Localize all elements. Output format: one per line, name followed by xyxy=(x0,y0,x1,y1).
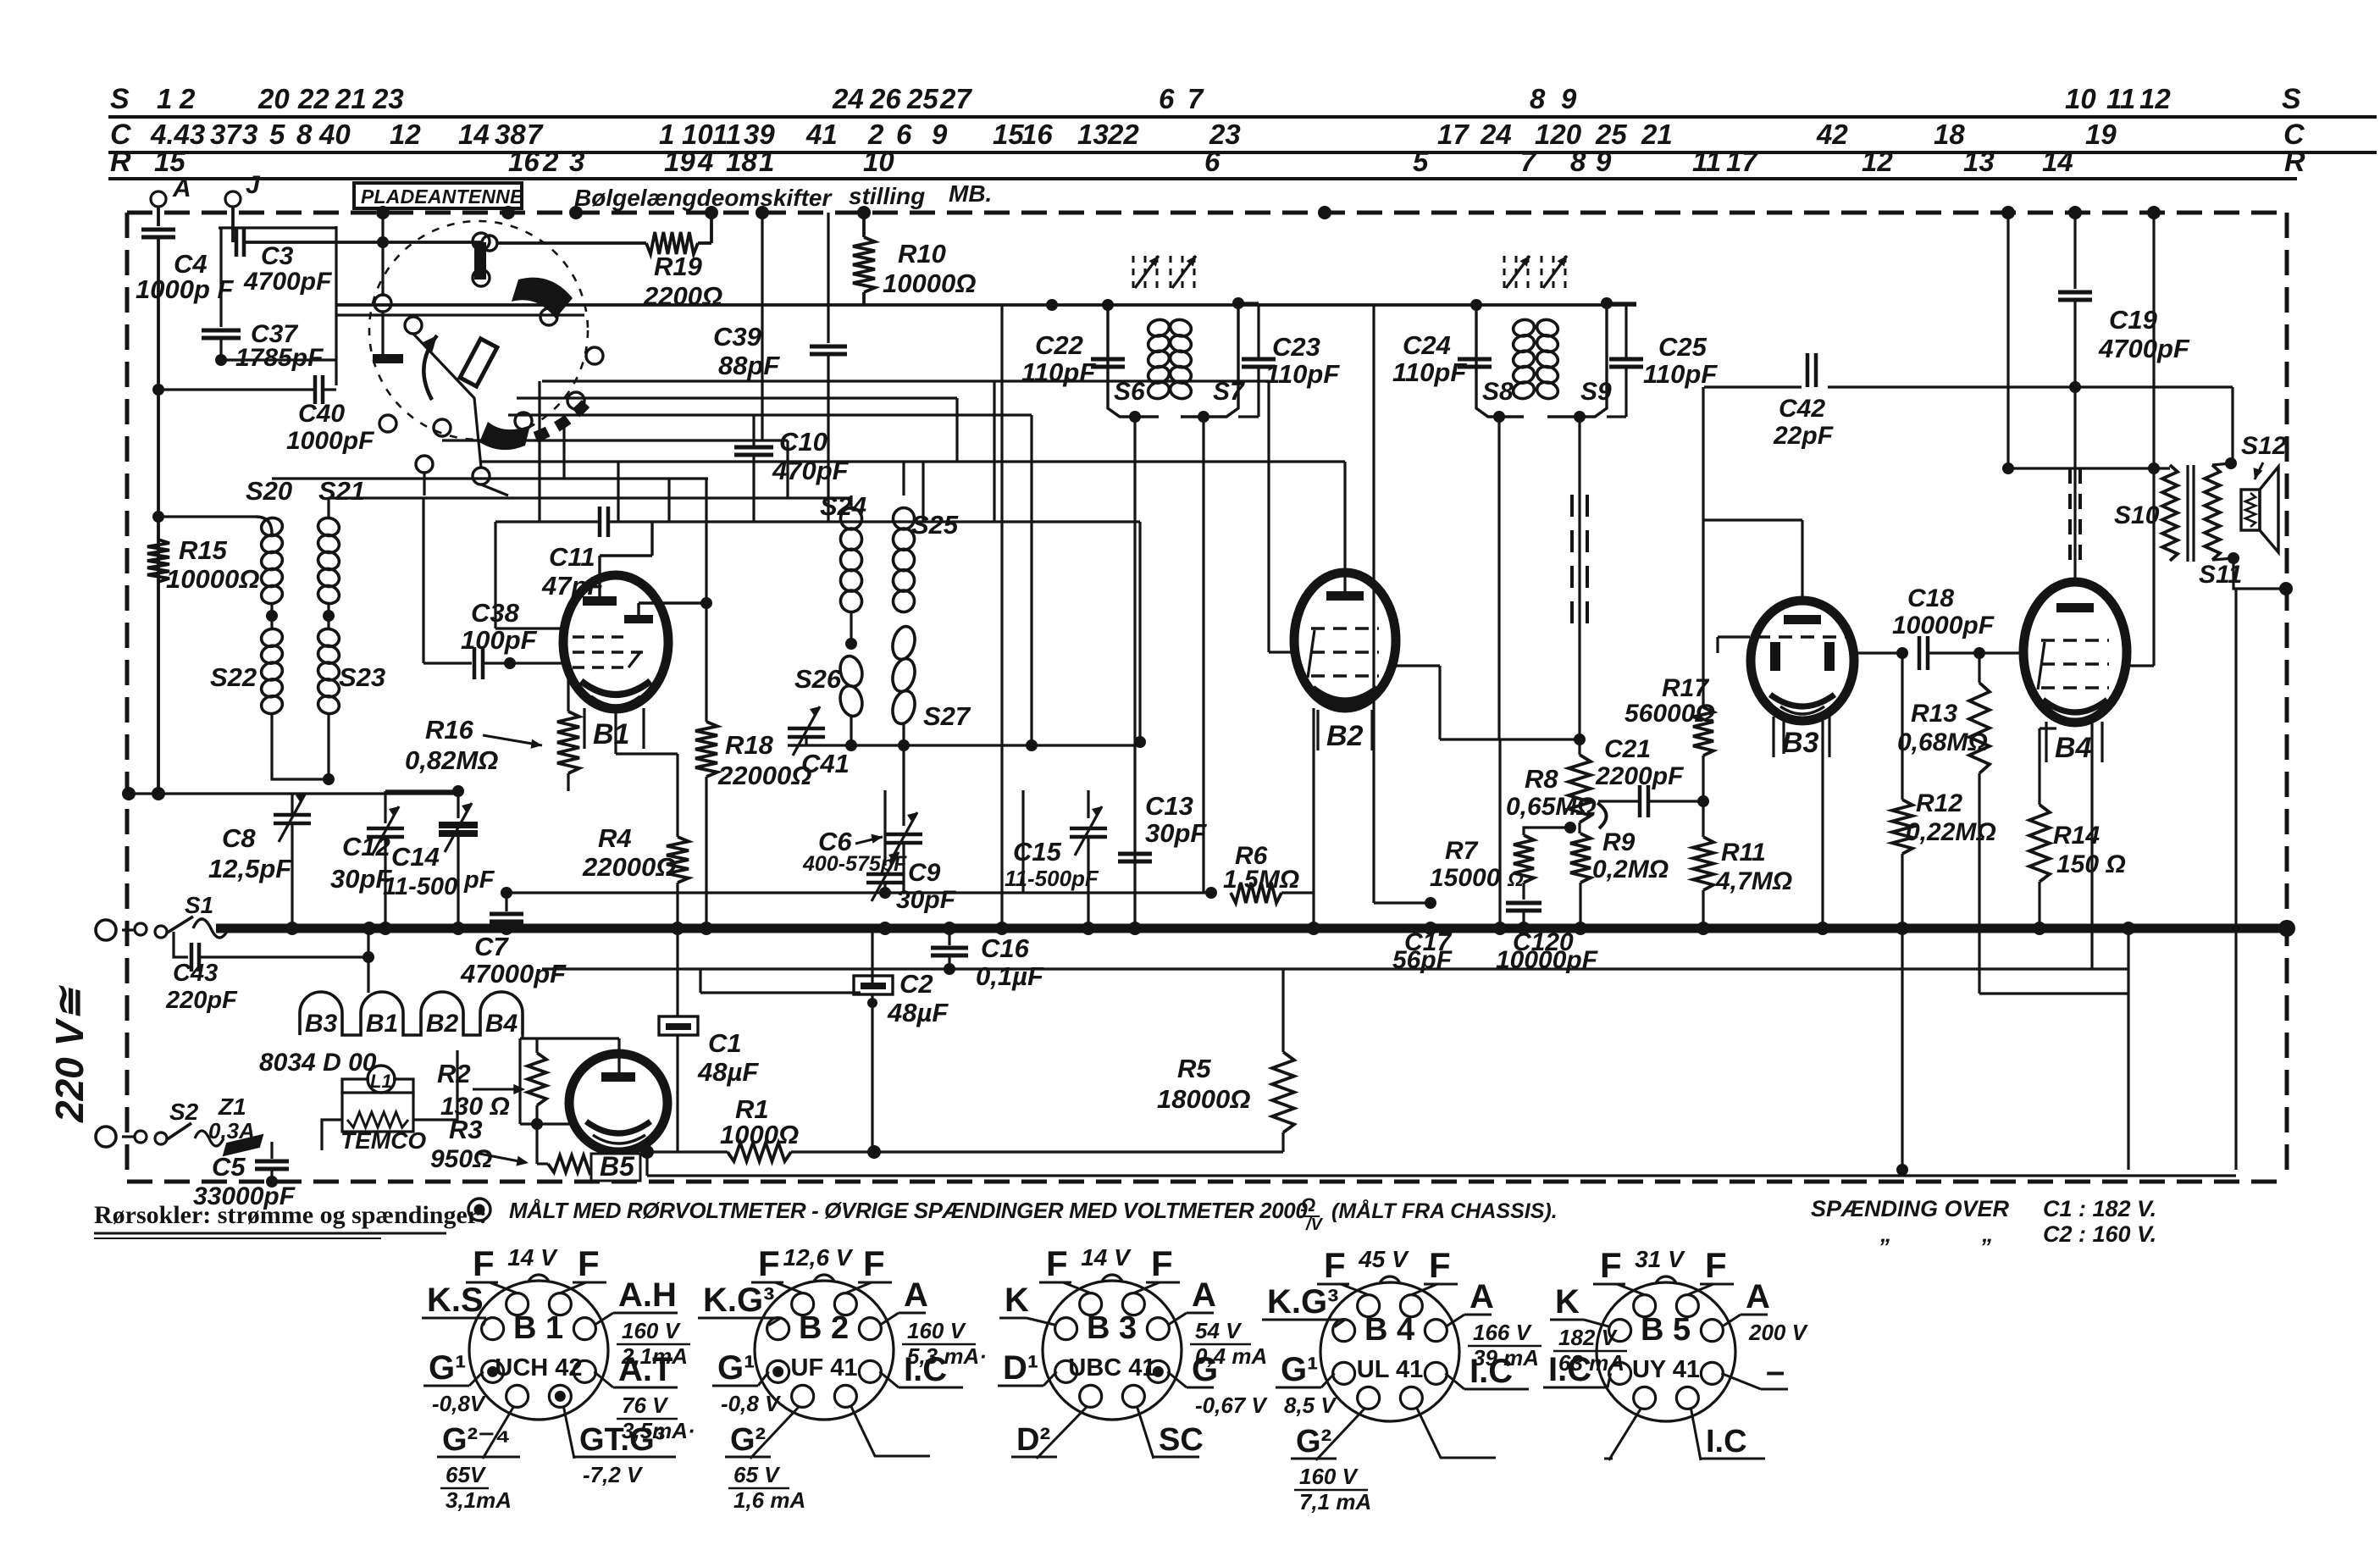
lamp leads xyxy=(342,1079,369,1094)
svg-text:56000Ω: 56000Ω xyxy=(1624,700,1715,728)
svg-text:0,1µF: 0,1µF xyxy=(976,961,1044,991)
label PLADEANTENNE box xyxy=(354,183,522,208)
resistor R14 150ohm xyxy=(2038,728,2040,805)
coil S25 xyxy=(891,506,916,532)
svg-text:0,68MΩ: 0,68MΩ xyxy=(1897,728,1988,756)
resistor R4 22000ohm xyxy=(614,710,617,754)
capacitor C40 xyxy=(313,375,318,404)
label B3 xyxy=(1772,717,1774,757)
svg-text:I.C: I.C xyxy=(1706,1424,1747,1459)
resistor R18 22000ohm xyxy=(705,479,707,722)
svg-text:18: 18 xyxy=(726,146,757,177)
svg-text:0,82MΩ: 0,82MΩ xyxy=(405,745,498,775)
svg-text:C22: C22 xyxy=(1035,330,1083,360)
svg-text:110pF: 110pF xyxy=(1021,357,1096,387)
svg-text:C19: C19 xyxy=(2109,305,2158,335)
svg-text:B2: B2 xyxy=(426,1010,459,1038)
tuning arrows IF1 xyxy=(1132,256,1135,288)
component index row C xyxy=(108,151,2377,154)
svg-text:110pF: 110pF xyxy=(1392,357,1467,387)
capacitor C19 4700pF xyxy=(2073,213,2076,289)
svg-text:0,65MΩ: 0,65MΩ xyxy=(1506,793,1597,821)
screened lead dashes S9 to detector xyxy=(1570,495,1574,628)
bus junction dots xyxy=(285,922,299,935)
svg-text:S: S xyxy=(110,83,130,115)
tube B1 leads xyxy=(495,627,564,629)
svg-text:C21: C21 xyxy=(1604,735,1651,763)
svg-text:7: 7 xyxy=(1520,146,1537,177)
svg-text:S21: S21 xyxy=(318,476,365,506)
svg-text:C39: C39 xyxy=(713,322,762,352)
svg-text:15000: 15000 xyxy=(1430,864,1501,892)
trimmer C9 30pF xyxy=(883,790,886,866)
svg-text:110pF: 110pF xyxy=(1643,359,1718,389)
wire B+ feed x2371 xyxy=(2006,213,2009,468)
svg-text:14 V: 14 V xyxy=(507,1244,558,1271)
svg-text:R15: R15 xyxy=(179,535,228,565)
tube B2 leads xyxy=(1269,651,1296,653)
svg-text:C18: C18 xyxy=(1907,584,1954,612)
svg-text:1785pF: 1785pF xyxy=(235,344,324,372)
svg-text:22000Ω: 22000Ω xyxy=(717,761,811,790)
svg-text:B4: B4 xyxy=(2055,732,2092,764)
svg-text:24: 24 xyxy=(1480,119,1512,150)
svg-text:K.G³: K.G³ xyxy=(1267,1283,1338,1321)
svg-text:R: R xyxy=(2284,146,2305,178)
svg-text:F: F xyxy=(1600,1245,1622,1285)
svg-text:C7: C7 xyxy=(474,932,509,961)
svg-text:A.T: A.T xyxy=(618,1351,672,1388)
svg-text:160 V: 160 V xyxy=(1299,1464,1359,1489)
svg-text:R5: R5 xyxy=(1177,1054,1211,1083)
svg-text:C2 : 160 V.: C2 : 160 V. xyxy=(2043,1221,2156,1247)
label B2 xyxy=(1316,710,1319,750)
svg-text:3: 3 xyxy=(242,119,257,150)
svg-text:14 V: 14 V xyxy=(1081,1244,1132,1271)
svg-text:D²: D² xyxy=(1016,1422,1050,1458)
wire y934 subline xyxy=(385,789,458,792)
coil S24 xyxy=(839,506,864,532)
svg-text:C15: C15 xyxy=(1013,837,1062,867)
svg-text:R12: R12 xyxy=(1916,789,1962,817)
wire node line y360 xyxy=(336,303,1052,307)
svg-text:S11: S11 xyxy=(2199,561,2242,589)
svg-text:47000pF: 47000pF xyxy=(460,959,567,988)
svg-text:7: 7 xyxy=(1187,83,1204,114)
svg-text:SC: SC xyxy=(1159,1422,1204,1458)
svg-text:B1: B1 xyxy=(593,718,629,750)
svg-text:S26: S26 xyxy=(794,664,842,694)
svg-text:18000Ω: 18000Ω xyxy=(1157,1084,1250,1114)
svg-text:18: 18 xyxy=(1934,119,1965,150)
terminal mains upper xyxy=(96,920,116,940)
wire speaker return to border xyxy=(2233,558,2286,589)
svg-text:10000pF: 10000pF xyxy=(1892,612,1995,640)
capacitor C38 100pF xyxy=(423,662,472,664)
capacitor C42 22pF xyxy=(1806,353,1810,387)
label B4 xyxy=(2045,722,2047,762)
svg-text:24: 24 xyxy=(832,83,864,114)
svg-text:1: 1 xyxy=(759,146,774,177)
wire y372 to switch xyxy=(336,313,584,316)
wire band horizontal y545 xyxy=(481,460,1345,462)
svg-text:3,1mA: 3,1mA xyxy=(446,1487,512,1513)
svg-text:S2: S2 xyxy=(169,1099,199,1125)
svg-text:(MÅLT FRA CHASSIS).: (MÅLT FRA CHASSIS). xyxy=(1331,1199,1558,1223)
resistor R5 18000ohm xyxy=(1281,969,1284,1052)
output transformer secondary S11 xyxy=(2205,465,2220,560)
wire band horizontal y450 xyxy=(542,379,1269,382)
svg-text:PLADEANTENNE: PLADEANTENNE xyxy=(361,185,523,208)
svg-text:6: 6 xyxy=(896,119,912,150)
svg-text:G¹: G¹ xyxy=(429,1349,466,1387)
wire band horizontal y470 xyxy=(517,396,957,399)
trimmer C15 11-500pF xyxy=(1087,790,1089,818)
svg-text:470pF: 470pF xyxy=(772,456,850,485)
svg-text:4700pF: 4700pF xyxy=(2098,334,2190,363)
wire B5 grid loop xyxy=(520,1037,619,1039)
tube B1 UCH42 xyxy=(563,575,668,709)
svg-text:1: 1 xyxy=(157,83,172,114)
svg-text:76 V: 76 V xyxy=(622,1393,669,1418)
component index row R xyxy=(108,177,2297,180)
svg-text:S24: S24 xyxy=(820,491,866,521)
wire band horizontal y490 xyxy=(508,413,1032,416)
svg-text:B1: B1 xyxy=(366,1010,398,1038)
svg-text:S22: S22 xyxy=(210,662,257,692)
svg-text:I.C: I.C xyxy=(1548,1351,1591,1388)
tube B4 UL41 xyxy=(2023,582,2127,723)
svg-text:K: K xyxy=(1555,1283,1580,1321)
node S9 bottom xyxy=(1574,411,1586,423)
svg-text:B 3: B 3 xyxy=(1087,1310,1137,1346)
tube B2 UF41 xyxy=(1294,573,1396,708)
lamp L1 8034 D00 xyxy=(368,1066,395,1093)
svg-text:F: F xyxy=(1151,1243,1173,1283)
svg-text:16: 16 xyxy=(1021,119,1053,150)
tube B3 leads xyxy=(1801,520,1803,601)
resistor R13 0.68Mohm xyxy=(1978,653,1980,683)
capacitor C43 220pF xyxy=(174,932,188,957)
node S6 bottom xyxy=(1129,411,1141,423)
svg-text:K.S: K.S xyxy=(427,1282,484,1319)
svg-text:C38: C38 xyxy=(471,598,520,628)
wire x1208 xyxy=(1021,790,1024,893)
wire band verticals xyxy=(538,381,540,522)
svg-text:12: 12 xyxy=(2139,83,2171,114)
resistor R1 1000ohm xyxy=(647,1150,728,1153)
svg-text:16: 16 xyxy=(508,146,540,177)
chassis bus wire xyxy=(216,924,2287,933)
svg-text:A: A xyxy=(1192,1276,1216,1314)
svg-text:45 V: 45 V xyxy=(1358,1246,1409,1272)
capacitor C10 470pF xyxy=(752,415,755,446)
capacitor C23 xyxy=(1242,357,1276,362)
svg-text:UBC 41: UBC 41 xyxy=(1068,1354,1155,1382)
svg-text:42: 42 xyxy=(1816,119,1848,150)
svg-text:C1 : 182 V.: C1 : 182 V. xyxy=(2043,1196,2156,1221)
svg-text:F: F xyxy=(1429,1245,1451,1285)
svg-text:F: F xyxy=(1705,1245,1727,1285)
svg-text:17: 17 xyxy=(1726,146,1758,177)
svg-text:C25: C25 xyxy=(1658,332,1708,362)
svg-text:MB.: MB. xyxy=(949,180,992,207)
svg-text:GT.G³: GT.G³ xyxy=(579,1422,665,1458)
switch pointer plate xyxy=(460,339,497,386)
speaker S12 xyxy=(2241,490,2260,530)
svg-text:0,22MΩ: 0,22MΩ xyxy=(1906,818,1996,846)
switch S1 xyxy=(135,923,147,935)
output transformer primary S10 xyxy=(2162,465,2178,561)
svg-text:F: F xyxy=(758,1243,780,1283)
svg-text:17: 17 xyxy=(1437,119,1470,150)
svg-text:2200pF: 2200pF xyxy=(1595,762,1684,790)
capacitor C4 xyxy=(141,228,175,232)
svg-text:31 V: 31 V xyxy=(1635,1246,1685,1272)
svg-text:pF: pF xyxy=(463,867,495,894)
resistor R8 0.65Mohm potentiometer xyxy=(1569,755,1591,822)
svg-text:C3: C3 xyxy=(261,242,294,270)
svg-text:MÅLT MED RØRVOLTMETER - ØVRIGE: MÅLT MED RØRVOLTMETER - ØVRIGE SPÆNDINGE… xyxy=(509,1198,1308,1223)
svg-text:C1: C1 xyxy=(708,1028,742,1058)
svg-text:„: „ xyxy=(1981,1221,1994,1247)
wire band horizontal y565 xyxy=(272,477,708,479)
label B1 xyxy=(583,708,585,749)
terminal J xyxy=(225,191,241,207)
switch rotor wedge upper xyxy=(512,278,573,318)
svg-text:19: 19 xyxy=(664,146,695,177)
trimmer C41 xyxy=(788,727,825,731)
svg-text:41: 41 xyxy=(805,119,838,150)
svg-text:5: 5 xyxy=(269,119,285,150)
wire heater feed xyxy=(367,928,369,993)
svg-text:4700pF: 4700pF xyxy=(243,268,332,296)
svg-text:2: 2 xyxy=(542,146,559,177)
wire right verticals to bottom xyxy=(2127,928,2129,1170)
svg-text:C9: C9 xyxy=(908,859,941,887)
svg-text:R7: R7 xyxy=(1445,837,1479,865)
svg-text:4: 4 xyxy=(697,146,713,177)
coil S22 xyxy=(259,627,284,649)
node S8 bottom xyxy=(1493,411,1505,423)
svg-text:stilling: stilling xyxy=(849,183,925,209)
svg-text:S12: S12 xyxy=(2241,432,2287,460)
svg-text:F: F xyxy=(1046,1243,1068,1283)
capacitor C17 56pF xyxy=(1425,897,1436,909)
caption measurement note xyxy=(468,1199,490,1221)
svg-text:3: 3 xyxy=(569,146,584,177)
node S7 bottom xyxy=(1198,411,1209,423)
svg-text:B 4: B 4 xyxy=(1364,1312,1414,1348)
svg-text:Rørsokler: strømme og spænding: Rørsokler: strømme og spændinger: xyxy=(94,1201,487,1229)
svg-text:R13: R13 xyxy=(1911,700,1957,728)
component index row S xyxy=(108,115,2377,119)
wire anode line y771 xyxy=(1854,651,1907,654)
trimmer C12 30pF xyxy=(384,791,386,823)
svg-text:23: 23 xyxy=(372,83,404,114)
svg-text:-0,67 V: -0,67 V xyxy=(1195,1393,1268,1418)
ballast TEMCO box xyxy=(342,1093,413,1132)
svg-text:R16: R16 xyxy=(425,715,474,745)
resistor R19 2200ohm xyxy=(496,241,646,245)
vertical feeds from top border xyxy=(761,213,763,440)
capacitor C16 0.1uF xyxy=(948,928,950,945)
svg-text:Ω: Ω xyxy=(1507,868,1524,891)
capacitor C37 xyxy=(202,329,241,333)
svg-text:22pF: 22pF xyxy=(1773,422,1834,450)
svg-text:K.G³: K.G³ xyxy=(703,1282,774,1319)
terminal mains lower xyxy=(96,1127,116,1147)
svg-text:27: 27 xyxy=(939,83,972,114)
svg-text:10: 10 xyxy=(2065,83,2096,114)
svg-text:S9: S9 xyxy=(1580,378,1612,406)
capacitor C2 48uF electrolytic xyxy=(871,928,873,987)
rotary switch wafer dashed outline xyxy=(369,221,588,440)
svg-text:–: – xyxy=(1766,1353,1785,1390)
resistor R11 4.7Mohm xyxy=(1693,837,1713,890)
wire y1054 line xyxy=(505,891,1211,894)
svg-text:C14: C14 xyxy=(391,842,440,872)
wire coils bottom y880 xyxy=(850,716,852,745)
svg-text:182 V: 182 V xyxy=(1558,1325,1619,1350)
svg-text:12: 12 xyxy=(390,119,421,150)
svg-text:B5: B5 xyxy=(600,1151,635,1182)
svg-text:8034 D 00: 8034 D 00 xyxy=(259,1049,377,1077)
svg-text:220 V≅: 220 V≅ xyxy=(47,985,91,1123)
tube B3 UBC41 xyxy=(1751,601,1854,721)
svg-text:0,2MΩ: 0,2MΩ xyxy=(1592,855,1669,883)
coil S7 xyxy=(1232,297,1244,309)
wire y460 heater line xyxy=(152,384,164,396)
svg-text:20: 20 xyxy=(257,83,290,114)
switch rotor wedge lower xyxy=(479,422,530,450)
fuse S1 coil xyxy=(193,919,229,938)
vertical through x1183 xyxy=(1000,305,1003,928)
svg-text:160 V: 160 V xyxy=(907,1318,967,1343)
svg-text:6: 6 xyxy=(1159,83,1175,114)
svg-text:R4: R4 xyxy=(598,823,632,853)
trimmer C6 400-575pF xyxy=(902,745,905,826)
resistor R2 130ohm xyxy=(535,1038,538,1053)
svg-text:54 V: 54 V xyxy=(1195,1318,1243,1343)
svg-text:S8: S8 xyxy=(1482,378,1514,406)
svg-text:1,6 mA: 1,6 mA xyxy=(733,1487,805,1513)
tuning arrows IF2 xyxy=(1503,256,1506,288)
svg-text:UL 41: UL 41 xyxy=(1357,1356,1423,1383)
resistor R17 56000ohm xyxy=(1702,387,1704,707)
node R8 bottom xyxy=(1564,822,1576,833)
wire C2 stub xyxy=(700,991,861,994)
svg-text:S25: S25 xyxy=(911,510,959,540)
capacitor C24 xyxy=(1458,357,1492,362)
svg-text:110pF: 110pF xyxy=(1265,359,1340,389)
svg-text:B4: B4 xyxy=(485,1010,518,1038)
svg-text:G²: G² xyxy=(1296,1424,1331,1459)
node top-border junctions xyxy=(501,206,515,219)
svg-text:10: 10 xyxy=(863,146,894,177)
svg-text:9: 9 xyxy=(1596,146,1612,177)
svg-text:B 2: B 2 xyxy=(799,1310,849,1346)
svg-text:1,5MΩ: 1,5MΩ xyxy=(1223,866,1299,894)
svg-text:R19: R19 xyxy=(654,252,703,281)
svg-text:B3: B3 xyxy=(1782,727,1819,759)
coil S8 xyxy=(1470,299,1482,311)
capacitor C13 30pF xyxy=(1118,852,1152,856)
resistor R16 0.82Mohm xyxy=(567,671,569,712)
svg-text:9: 9 xyxy=(932,119,948,150)
svg-text:C13: C13 xyxy=(1145,791,1193,821)
svg-text:160 V: 160 V xyxy=(622,1318,682,1343)
resistor R9 0.2Mohm xyxy=(1570,833,1591,883)
trimmer C14 11-500pF xyxy=(457,791,459,818)
svg-text:-0,8V: -0,8V xyxy=(432,1391,487,1416)
switch wire stubs xyxy=(479,250,482,269)
svg-text:UF 41: UF 41 xyxy=(791,1354,858,1382)
wire y873 line xyxy=(1440,738,1580,740)
svg-text:G¹: G¹ xyxy=(717,1349,755,1387)
chassis dashed border xyxy=(127,211,2287,215)
svg-text:C23: C23 xyxy=(1272,332,1320,362)
svg-text:R: R xyxy=(110,146,131,178)
wire C42 line y457 xyxy=(1704,385,1802,388)
capacitor C3 xyxy=(235,228,239,257)
capacitor C11 47pF xyxy=(495,520,598,523)
svg-text:11: 11 xyxy=(2106,83,2135,114)
svg-text:166 V: 166 V xyxy=(1473,1320,1533,1345)
resistor R10 10000ohm xyxy=(862,213,866,237)
heater chain arcs B3 B1 B2 B4 xyxy=(300,992,523,1035)
svg-text:I.C: I.C xyxy=(904,1351,947,1388)
svg-text:R17: R17 xyxy=(1662,674,1709,702)
svg-text:200 V: 200 V xyxy=(1748,1320,1809,1345)
svg-text:150 Ω: 150 Ω xyxy=(2056,850,2126,878)
svg-text:0,3A: 0,3A xyxy=(208,1118,255,1143)
resistor R15 10000ohm xyxy=(152,787,165,800)
svg-text:B2: B2 xyxy=(1326,720,1364,752)
svg-text:S20: S20 xyxy=(246,476,292,506)
wire pladeantenne drop xyxy=(381,208,384,296)
svg-text:C40: C40 xyxy=(298,400,345,428)
svg-text:65 V: 65 V xyxy=(733,1462,781,1487)
svg-text:A.H: A.H xyxy=(618,1276,677,1314)
svg-text:220pF: 220pF xyxy=(165,987,238,1014)
capacitor C5 33000pF xyxy=(270,1142,273,1159)
svg-text:37: 37 xyxy=(210,119,242,150)
svg-text:48µF: 48µF xyxy=(697,1057,759,1087)
svg-text:30pF: 30pF xyxy=(896,886,956,914)
svg-text:K: K xyxy=(1005,1282,1029,1319)
svg-text:C5: C5 xyxy=(212,1152,246,1182)
svg-text:13: 13 xyxy=(1077,119,1109,150)
capacitor C39 88pF xyxy=(827,213,829,343)
svg-text:13: 13 xyxy=(1963,146,1995,177)
wire band horizontal y520 xyxy=(442,439,788,441)
wire S24-S26 junction xyxy=(850,612,852,644)
svg-text:1000Ω: 1000Ω xyxy=(720,1120,799,1149)
svg-text:8: 8 xyxy=(1570,146,1586,177)
svg-text:88pF: 88pF xyxy=(718,351,780,380)
svg-text:G¹: G¹ xyxy=(1281,1351,1318,1388)
svg-text:S23: S23 xyxy=(339,662,385,692)
svg-text:SPÆNDING OVER: SPÆNDING OVER xyxy=(1811,1196,2010,1221)
svg-text:Bølgelængdeomskifter: Bølgelængdeomskifter xyxy=(574,185,833,211)
svg-text:/V: /V xyxy=(1305,1215,1324,1234)
capacitor C7 47000pF xyxy=(505,893,507,911)
svg-text:8,5 V: 8,5 V xyxy=(1284,1393,1337,1418)
switch pole bar xyxy=(474,242,486,280)
wire S24 top xyxy=(850,496,852,510)
svg-text:C11: C11 xyxy=(549,542,595,572)
